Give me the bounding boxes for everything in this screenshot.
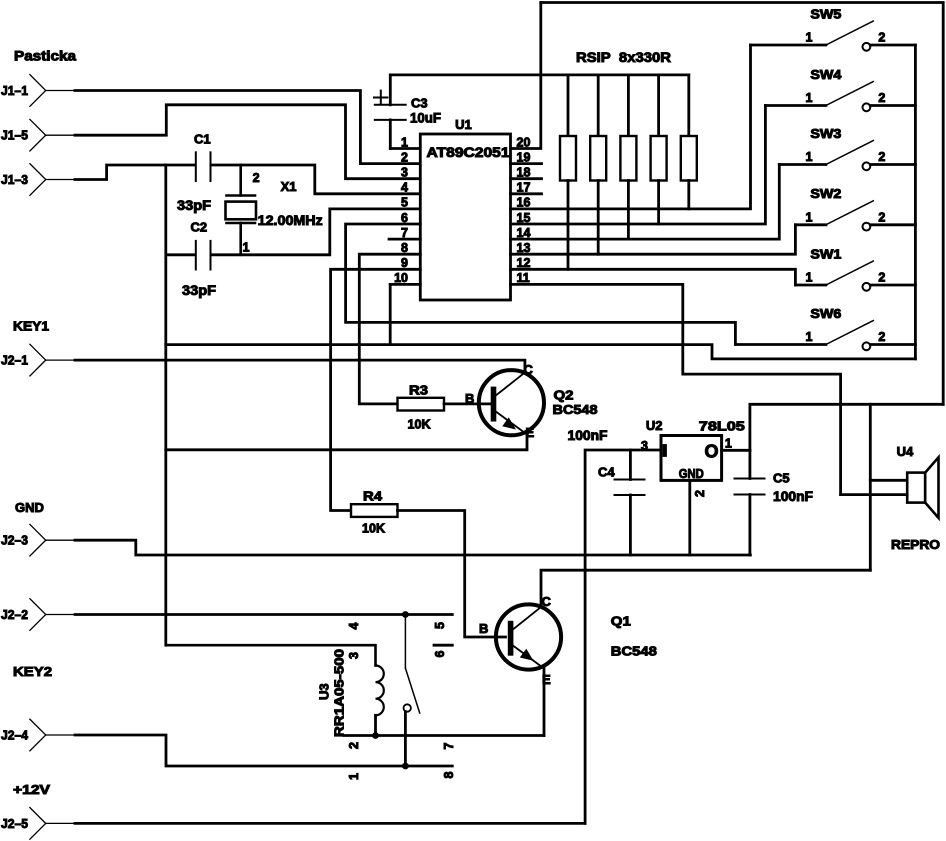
svg-text:12.00MHz: 12.00MHz	[258, 213, 323, 228]
resistor RSIP element 4	[651, 75, 667, 224]
svg-text:GND: GND	[15, 500, 44, 515]
wire R4 to Q1 base	[398, 511, 506, 638]
wire J2-2 to relay pins 4/5	[46, 614, 453, 616]
wire U1 pin 10 (GND) to rail and switches return	[166, 284, 916, 359]
wire U2 output pin 1	[722, 404, 944, 450]
wire U1 pin 6 to SW6	[346, 224, 736, 345]
switch output rail	[914, 45, 917, 359]
junction relay pin 8	[402, 763, 409, 770]
connector J2-3	[1, 524, 46, 556]
svg-text:1: 1	[243, 241, 250, 255]
svg-text:2: 2	[693, 490, 707, 497]
capacitor C4	[598, 450, 645, 555]
wire KEY1 J2-1 to Q2 collector	[46, 360, 525, 372]
capacitor C3 (electrolytic)	[374, 75, 441, 149]
svg-text:1: 1	[806, 210, 813, 224]
switch SW6	[735, 306, 915, 350]
svg-text:C1: C1	[194, 132, 211, 147]
switch SW5	[751, 6, 916, 50]
svg-text:5: 5	[433, 622, 447, 629]
connector J2-1	[1, 344, 46, 376]
svg-text:C: C	[542, 594, 552, 609]
svg-text:R4: R4	[363, 489, 383, 504]
svg-text:REPRO: REPRO	[891, 537, 940, 552]
connector J2-2	[1, 599, 46, 631]
resistor R3	[398, 383, 445, 432]
wire U1 pin 20 (VCC) to top border	[511, 3, 541, 149]
svg-text:2: 2	[878, 150, 885, 164]
svg-text:2: 2	[878, 271, 885, 285]
svg-text:2: 2	[878, 210, 885, 224]
wire J1-3 to C1 / GND rail	[46, 165, 195, 180]
connector J2-4	[1, 719, 46, 751]
connector J2-5	[1, 808, 46, 840]
svg-text:GND: GND	[679, 467, 704, 481]
svg-text:10uF: 10uF	[410, 111, 441, 126]
svg-text:78L05: 78L05	[699, 419, 745, 434]
svg-text:AT89C2051: AT89C2051	[427, 145, 511, 160]
svg-text:J2–1: J2–1	[1, 353, 28, 368]
svg-text:2: 2	[878, 91, 885, 105]
svg-text:SW3: SW3	[810, 126, 841, 141]
wire U1 pin 11 to speaker	[511, 284, 841, 494]
resistor RSIP element 3	[620, 75, 636, 239]
svg-text:C3: C3	[411, 96, 428, 111]
svg-text:J2–4: J2–4	[1, 728, 29, 743]
transistor Q2 BC548	[465, 362, 598, 440]
U1 pin 19 stub	[511, 162, 542, 165]
wire +12V to U2 input pin 3	[585, 450, 661, 823]
svg-text:U2: U2	[646, 418, 663, 433]
svg-text:KEY1: KEY1	[13, 319, 49, 334]
junction relay pin 5	[402, 611, 409, 618]
svg-text:1: 1	[806, 330, 813, 344]
capacitor C5	[735, 450, 814, 555]
connector J1-5	[1, 119, 46, 151]
svg-text:BC548: BC548	[553, 402, 598, 417]
U1 pin 18 stub	[511, 177, 542, 180]
svg-text:B: B	[479, 621, 488, 636]
svg-text:4: 4	[347, 623, 361, 630]
wire U1 pin 8 to R3	[359, 254, 420, 404]
svg-text:J2–2: J2–2	[1, 607, 28, 622]
svg-text:33pF: 33pF	[177, 198, 211, 213]
wire U1 pin 15 to SW4	[511, 106, 766, 225]
svg-text:1: 1	[347, 773, 361, 780]
svg-text:2: 2	[347, 742, 361, 749]
svg-text:3: 3	[641, 439, 648, 453]
relay coil	[166, 645, 384, 735]
svg-text:Q1: Q1	[611, 614, 631, 629]
relay contact	[347, 615, 456, 781]
connector J1-3	[1, 164, 46, 196]
wire U1 pin 13 to SW2	[511, 225, 796, 254]
U1 right pin numbers 11-20	[517, 135, 531, 285]
ground rail (vertical)	[164, 165, 167, 645]
wire U1 pin 16 to SW5	[511, 45, 751, 209]
wire Q2 emitter to ground rail	[166, 435, 527, 450]
switch SW2	[795, 186, 915, 230]
svg-text:C4: C4	[598, 465, 615, 480]
svg-text:J2–5: J2–5	[1, 816, 28, 831]
speaker U4 REPRO	[891, 444, 940, 552]
svg-text:U3: U3	[317, 683, 332, 700]
svg-text:Q2: Q2	[554, 388, 574, 403]
wire J2-3 (GND)	[46, 540, 751, 555]
svg-text:SW5: SW5	[810, 6, 841, 21]
wire Q1 emitter to relay pin 7	[543, 669, 546, 736]
svg-text:RR1A05-500: RR1A05-500	[332, 649, 347, 737]
U1 pin 7 stub	[389, 238, 420, 241]
svg-text:2: 2	[253, 171, 260, 185]
wire C2/XTAL1 to U1 pin 5	[166, 209, 420, 255]
relay U3 RR1A05-500	[317, 649, 347, 737]
resistor RSIP element 1	[560, 75, 576, 269]
svg-text:10K: 10K	[408, 417, 432, 432]
svg-text:U4: U4	[897, 444, 914, 459]
wire R3 to Q2 base	[444, 402, 491, 405]
svg-text:J2–3: J2–3	[1, 533, 28, 548]
wire J1-5 to U1 pin 3	[46, 105, 421, 179]
svg-text:2: 2	[401, 150, 408, 164]
svg-text:4: 4	[401, 181, 408, 195]
svg-text:BC548: BC548	[611, 644, 657, 659]
svg-text:1: 1	[401, 135, 408, 149]
wire J2-5 (+12V)	[46, 822, 585, 824]
svg-text:SW4: SW4	[810, 67, 842, 82]
svg-text:RSIP 8x330R: RSIP 8x330R	[576, 50, 671, 65]
svg-text:2: 2	[878, 330, 885, 344]
svg-text:1: 1	[806, 150, 813, 164]
svg-text:5: 5	[401, 196, 408, 210]
connector J1-1	[1, 75, 46, 107]
svg-text:B: B	[465, 391, 474, 406]
wire C1 to U1 pin 4 (XTAL2)	[212, 165, 421, 194]
svg-text:1: 1	[806, 271, 813, 285]
svg-text:SW6: SW6	[810, 306, 841, 321]
IC U1 AT89C2051	[420, 117, 510, 300]
svg-text:C: C	[524, 362, 534, 377]
svg-text:100nF: 100nF	[568, 428, 608, 443]
svg-text:6: 6	[433, 651, 447, 658]
resistor RSIP element 2	[590, 75, 606, 254]
capacitor C1	[177, 132, 211, 214]
svg-text:7: 7	[442, 743, 456, 750]
top border wire (+5V)	[541, 3, 943, 405]
transistor Q1 BC548	[479, 594, 657, 687]
svg-text:O: O	[705, 442, 719, 462]
wire J1-1 to U1 pin 2	[46, 91, 421, 164]
svg-text:100nF: 100nF	[773, 489, 813, 504]
relay pins 2-7 wire	[344, 734, 544, 737]
svg-text:Pasticka: Pasticka	[14, 49, 77, 64]
IC U2 78L05	[641, 418, 745, 481]
wire U1 pin 14 to SW3	[511, 165, 780, 240]
svg-text:1: 1	[806, 91, 813, 105]
resistor bus wire	[390, 74, 689, 77]
switch SW1	[795, 246, 915, 290]
U1 left pin numbers 1-10	[394, 135, 408, 285]
wire U1 pin 9 to R4	[331, 269, 421, 510]
svg-text:+12V: +12V	[13, 782, 50, 797]
svg-text:2: 2	[878, 31, 885, 45]
svg-text:KEY2: KEY2	[13, 664, 52, 679]
resistor RSIP element 5	[681, 75, 697, 209]
junction relay coil pin 2	[372, 732, 379, 739]
svg-text:C2: C2	[191, 220, 208, 235]
svg-text:J1–5: J1–5	[1, 128, 28, 143]
wire U1 pin 12 to SW1	[511, 269, 796, 285]
U1 pin 17 stub	[511, 192, 542, 195]
svg-text:3: 3	[401, 166, 408, 180]
svg-text:1: 1	[725, 437, 732, 451]
capacitor C2	[182, 220, 216, 299]
svg-text:J1–1: J1–1	[1, 83, 28, 98]
svg-text:SW2: SW2	[810, 186, 841, 201]
svg-text:1: 1	[806, 31, 813, 45]
svg-text:SW1: SW1	[810, 246, 841, 261]
svg-text:C5: C5	[773, 471, 790, 486]
svg-text:8: 8	[442, 772, 456, 779]
switch SW4	[765, 67, 915, 111]
svg-text:J1–3: J1–3	[1, 172, 28, 187]
crystal X1	[226, 165, 323, 255]
resistor R4	[351, 489, 398, 536]
svg-text:3: 3	[347, 652, 361, 659]
wire +5V to speaker top	[870, 404, 907, 570]
wire J2-4 to relay pin 1	[46, 735, 453, 766]
wire Q1 collector to speaker	[541, 495, 907, 606]
svg-text:R3: R3	[409, 383, 428, 398]
svg-text:10K: 10K	[362, 521, 386, 536]
switch SW3	[779, 126, 915, 170]
wire C3 to U1 pin 1 (RST)	[390, 147, 420, 150]
svg-text:33pF: 33pF	[182, 283, 216, 298]
svg-text:X1: X1	[281, 179, 297, 194]
svg-text:U1: U1	[455, 117, 472, 132]
wire U2 pin 2 (GND) to ground line	[690, 480, 707, 555]
